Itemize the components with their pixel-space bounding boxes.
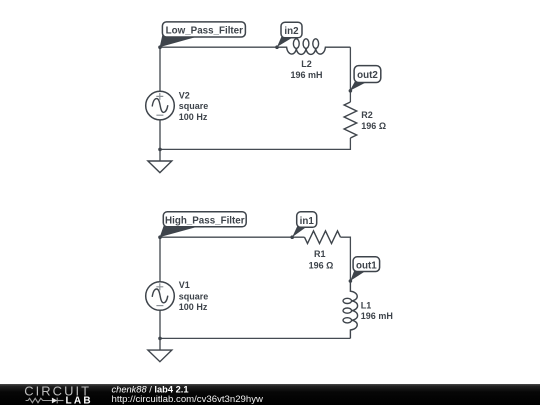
svg-text:100 Hz: 100 Hz [179,302,208,312]
R2 value labels [361,110,386,131]
label out2 [350,66,381,91]
label out1 [350,257,379,281]
svg-text:in2: in2 [284,26,299,37]
footer bar background [0,384,540,405]
node: bottom-left junction (top circuit) [158,148,162,152]
wire R2 bottom to bottom rail [160,138,350,149]
CircuitLab logo: resistor-diode glyph [26,398,64,404]
label in2 [277,22,302,47]
R1 value labels [309,249,334,271]
V1 minus sign [156,305,163,307]
wire R1 to right rail corner down to out1 [341,237,351,281]
svg-text:V2: V2 [179,91,190,101]
ground (top circuit) [148,149,172,172]
svg-text:100 Hz: 100 Hz [179,112,208,122]
svg-text:196 Ω: 196 Ω [309,261,334,271]
inductor L1 [343,281,358,338]
wire top-left to in2 (top rail) [160,46,277,48]
svg-text:V1: V1 [179,280,190,290]
V1 plus sign [156,283,163,290]
svg-text:L1: L1 [361,300,372,310]
node: top-left junction (bottom circuit) [158,235,162,239]
node in1 [290,235,294,239]
svg-text:High_Pass_Filter: High_Pass_Filter [165,215,245,226]
svg-text:196 Ω: 196 Ω [361,121,386,131]
label in1 [292,212,317,237]
svg-text:in1: in1 [300,216,315,227]
L2 value labels [290,59,322,80]
svg-text:Low_Pass_Filter: Low_Pass_Filter [166,26,244,37]
voltage source V2 [146,47,175,149]
node in2 [275,45,279,49]
svg-text:196 mH: 196 mH [361,311,393,321]
V2 plus sign [156,93,163,100]
svg-text:196 mH: 196 mH [290,70,322,80]
resistor R1 [305,231,341,244]
wire bottom rail (bottom circuit) [160,337,350,339]
label High_Pass_Filter [160,212,247,237]
ground (bottom circuit) [148,338,172,361]
svg-text:R2: R2 [361,110,373,120]
V2 labels [179,91,209,122]
wire right rail down to out2 [349,47,351,102]
node out2 [349,89,353,93]
L1 value labels [361,300,393,321]
svg-text:out2: out2 [357,70,378,81]
svg-text:LAB: LAB [66,395,93,405]
node: bottom-left junction (bottom circuit) [158,337,162,341]
svg-text:http://circuitlab.com/cv36vt3n: http://circuitlab.com/cv36vt3n29hyw [112,394,264,405]
svg-text:R1: R1 [314,249,326,259]
resistor R2 [344,102,357,138]
svg-text:out1: out1 [356,260,377,271]
V2 minus sign [156,114,163,116]
svg-text:L2: L2 [301,59,312,69]
logo diode triangle [52,398,57,404]
node: top-left junction [158,45,162,49]
wire top-left to R1 (top rail, bottom circuit) [160,236,305,238]
node out1 [349,279,353,283]
inductor L2 [277,39,350,55]
voltage source V1 [146,237,175,338]
svg-text:square: square [179,101,209,111]
V1 labels [179,280,209,312]
label Low_Pass_Filter [160,22,246,47]
svg-text:square: square [179,291,209,301]
